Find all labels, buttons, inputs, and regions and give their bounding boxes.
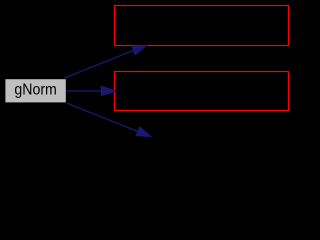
node box1 (red, truncated callee) [115,6,289,46]
node box2 (red, truncated callee) [115,72,289,111]
node gNorm (current, grey filled) [5,79,65,102]
svg-text:gNorm: gNorm [14,81,57,98]
wire edge gNorm->box2 [66,90,102,92]
wire edge gNorm->box1 [65,50,134,78]
wire edge gNorm->hidden node [67,103,138,131]
